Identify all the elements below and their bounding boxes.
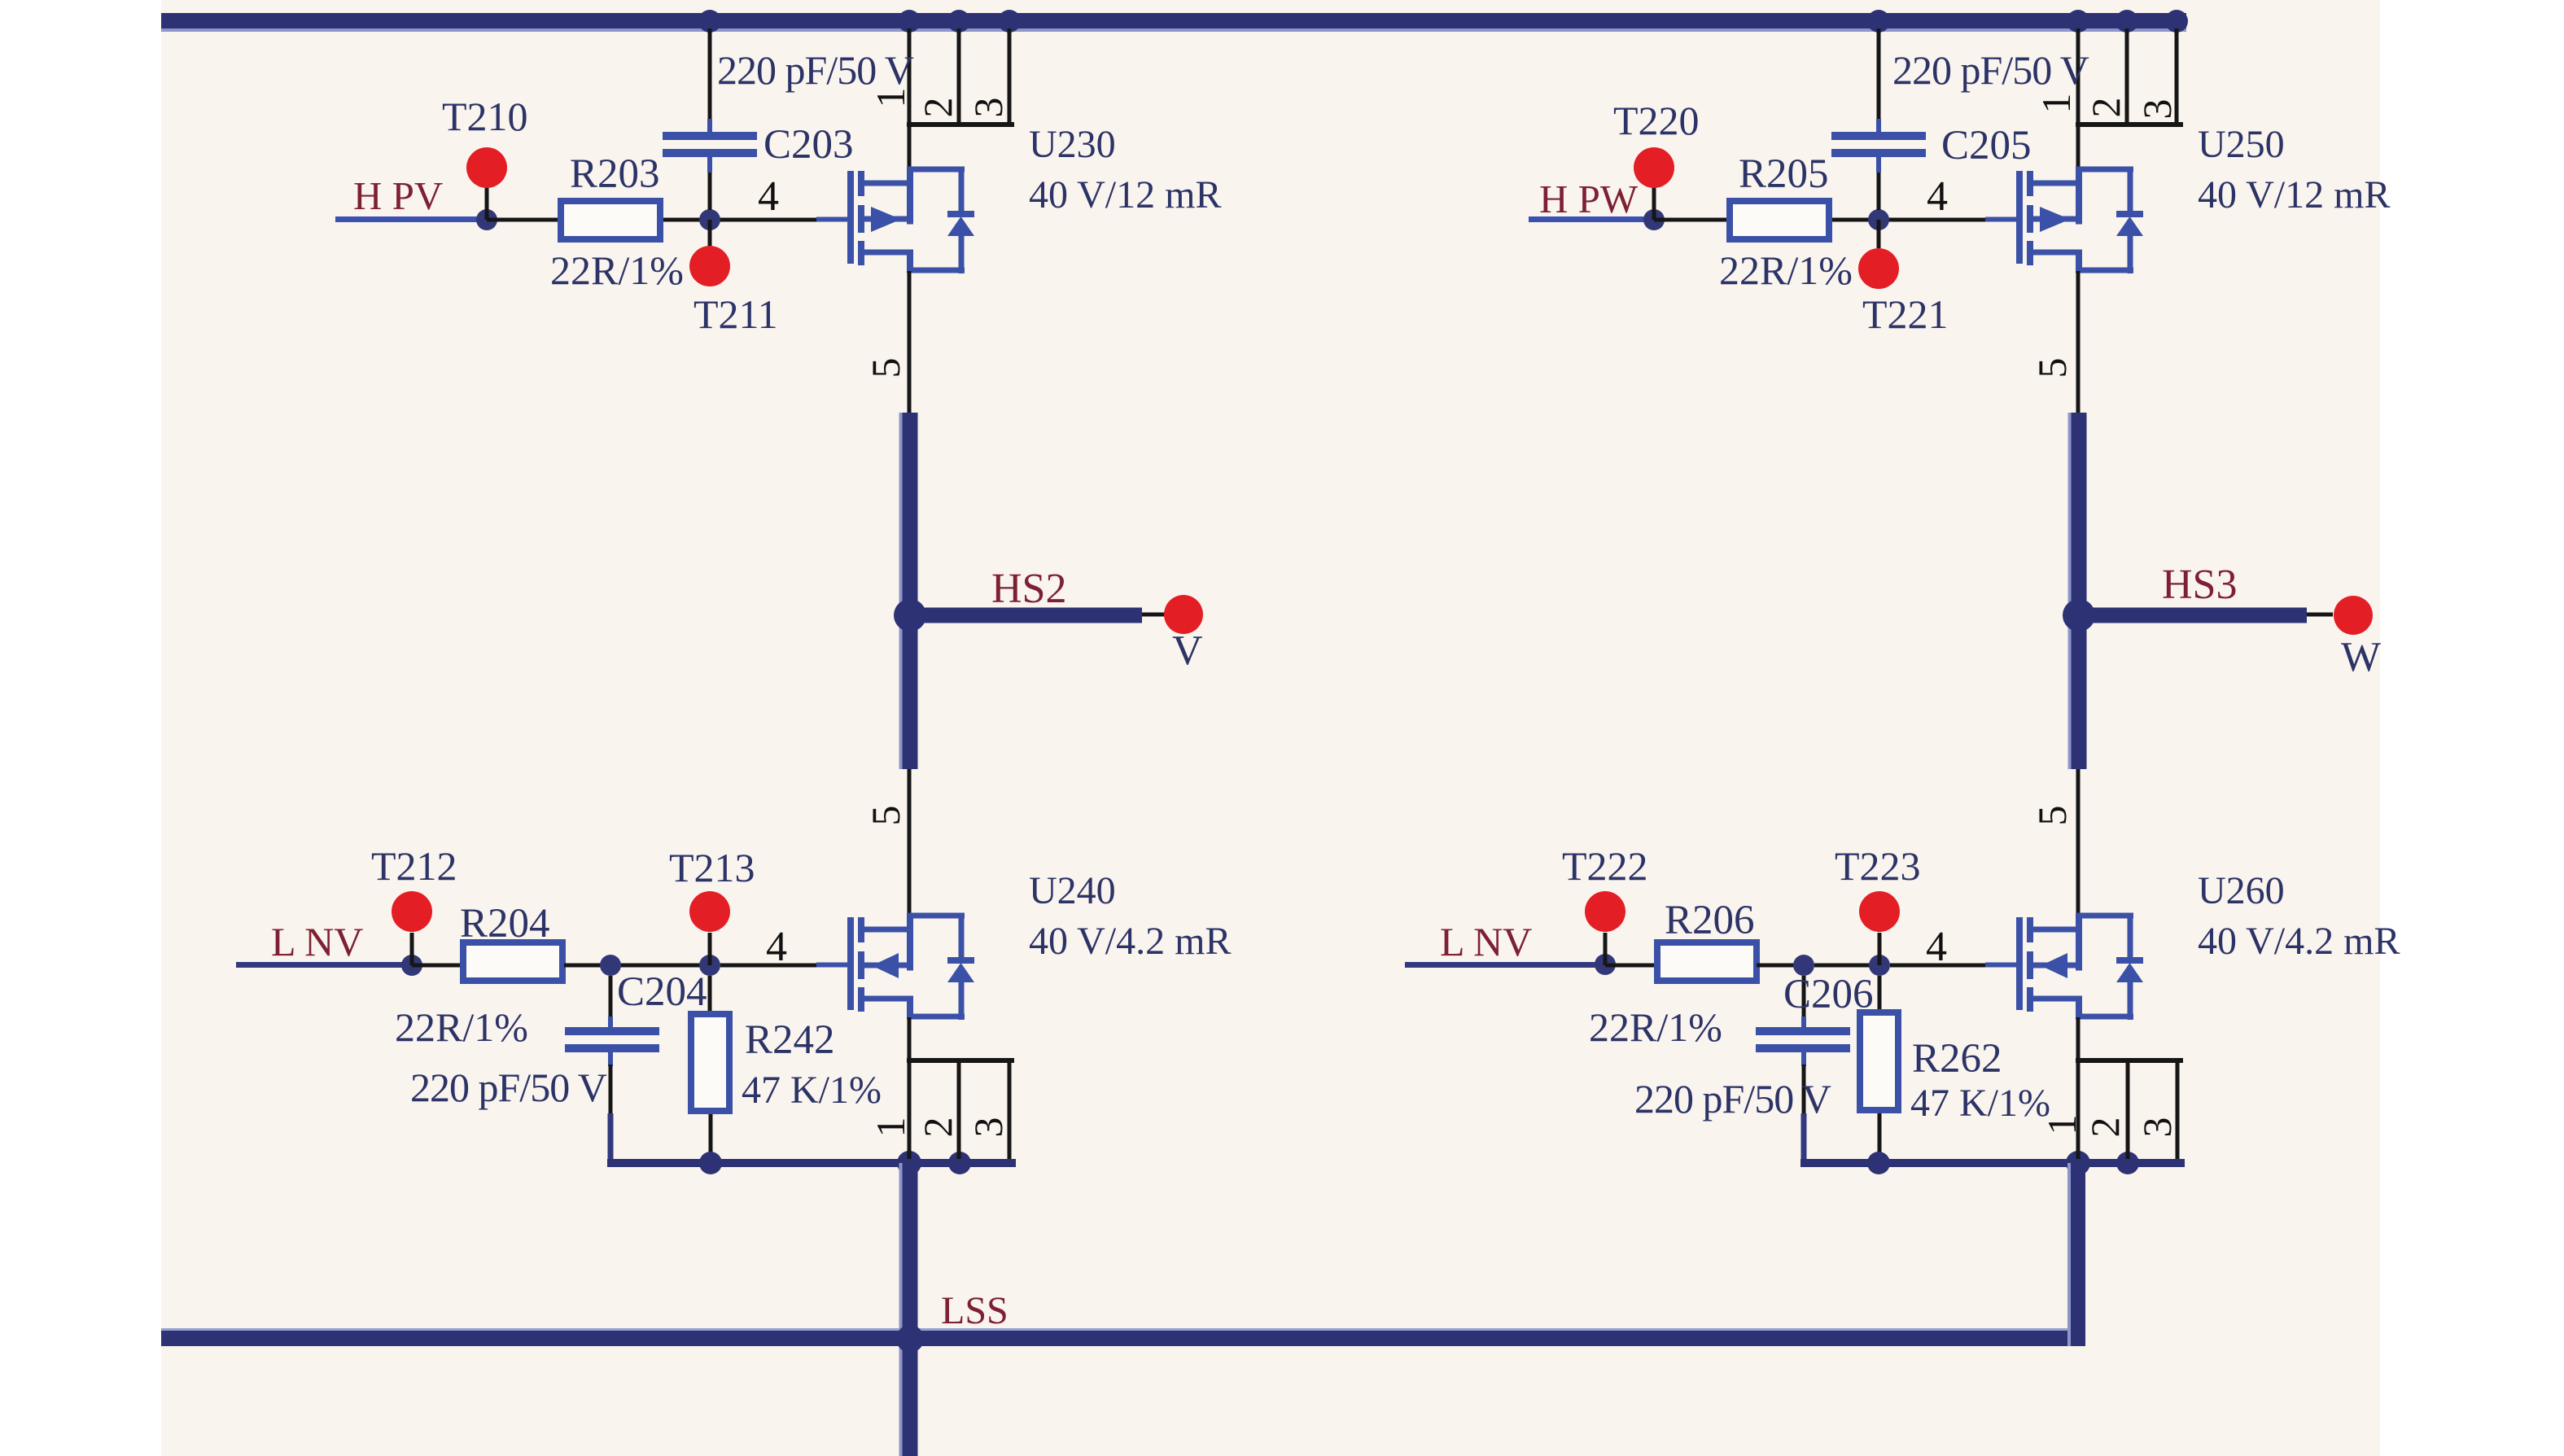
svg-text:2: 2: [2082, 1117, 2128, 1138]
wire U250 pin3: [2175, 28, 2179, 125]
wire HS2 stub (thick): [910, 608, 1142, 623]
node LSS crossing: [896, 1325, 924, 1353]
svg-text:T212: T212: [371, 843, 457, 889]
node L NV junction: [401, 955, 422, 976]
svg-text:H PV: H PV: [353, 173, 443, 218]
wire bottom pin3: [1008, 1063, 1012, 1159]
capacitor C204: [565, 1027, 659, 1035]
svg-text:T222: T222: [1562, 843, 1648, 889]
node junction on rail at U230 pin3: [998, 10, 1021, 33]
svg-text:1: 1: [2039, 1115, 2085, 1135]
wire C203 top (rail to cap): [708, 28, 712, 122]
resistor R206: [1657, 942, 1757, 981]
HS3 thick vertical bar: [2068, 413, 2072, 769]
svg-text:40 V/4.2 mR: 40 V/4.2 mR: [1029, 920, 1231, 963]
svg-text:U230: U230: [1029, 123, 1116, 166]
svg-text:220 pF/50 V: 220 pF/50 V: [410, 1065, 607, 1110]
HS2 thick vertical bar: [899, 413, 903, 769]
test point T213: [708, 933, 712, 965]
wire U250 drain pin1: [2076, 28, 2081, 169]
wire C206 bottom to bar corner: [1801, 1052, 1806, 1066]
top connector box bottom edge: [907, 122, 1014, 127]
wire R205 to U250 gate: [1832, 218, 1987, 222]
test point W: [2334, 596, 2373, 635]
resistor R262: [1860, 1012, 1898, 1110]
bottom connector box top edge: [907, 1058, 1014, 1063]
svg-text:3: 3: [2134, 99, 2180, 120]
test point T210: [485, 187, 489, 220]
capacitor C203: [663, 132, 757, 140]
test point T220: [1652, 187, 1656, 220]
svg-text:U260: U260: [2198, 869, 2285, 912]
wire C204 node down to cap: [609, 976, 613, 1022]
wire R262 to bottom bar: [1878, 1113, 1882, 1159]
svg-text:H PW: H PW: [1539, 177, 1639, 221]
svg-text:1: 1: [868, 1117, 913, 1138]
svg-text:2: 2: [915, 1117, 960, 1138]
resistor R242: [691, 1014, 729, 1111]
svg-text:220 pF/50 V: 220 pF/50 V: [717, 47, 914, 93]
svg-text:22R/1%: 22R/1%: [395, 1004, 528, 1050]
node junction on rail above C203: [698, 10, 721, 33]
wire R206 to C206 node: [1757, 964, 1804, 968]
wire U230 source down to HS2 bar: [908, 271, 912, 416]
svg-text:R205: R205: [1739, 151, 1829, 197]
svg-text:22R/1%: 22R/1%: [550, 247, 684, 293]
top power rail: [161, 13, 2186, 28]
node C206 junction: [1793, 955, 1814, 976]
test point V: [1164, 595, 1203, 634]
svg-text:40 V/12 mR: 40 V/12 mR: [1029, 173, 1221, 216]
wire H PW lead-in (blue): [1529, 216, 1654, 222]
wire L NV lead-in: [236, 962, 412, 968]
wire C204 node to T213 node: [621, 964, 711, 968]
wire R242 to bottom bar: [709, 1114, 713, 1159]
svg-text:U250: U250: [2198, 123, 2285, 166]
svg-text:V: V: [1172, 627, 1203, 674]
test point T222: [1604, 933, 1608, 965]
svg-text:22R/1%: 22R/1%: [1719, 247, 1853, 293]
wire U230 pin3: [1008, 28, 1012, 125]
node H PV junction: [476, 209, 497, 230]
svg-text:5: 5: [2029, 358, 2075, 378]
mosfet U250: [2016, 167, 2143, 274]
svg-text:LSS: LSS: [941, 1289, 1009, 1332]
wire junction to R205: [1654, 218, 1730, 222]
svg-text:R242: R242: [745, 1017, 835, 1063]
wire junction to R204: [412, 964, 463, 968]
node gate junction below C205: [1868, 209, 1889, 230]
test point T221: [1877, 220, 1881, 248]
svg-text:R203: R203: [570, 151, 660, 197]
wire right bottom pin2: [2126, 1063, 2130, 1159]
svg-text:HS2: HS2: [991, 566, 1066, 612]
svg-text:4: 4: [766, 924, 787, 970]
svg-text:4: 4: [1927, 173, 1948, 220]
svg-text:4: 4: [1926, 924, 1947, 970]
node junction on rail at U230 pin1: [898, 10, 921, 33]
node R242 bottom junction: [699, 1152, 722, 1174]
svg-text:T223: T223: [1835, 843, 1921, 889]
svg-text:40 V/12 mR: 40 V/12 mR: [2198, 173, 2390, 216]
wire R204 to C204 node: [564, 964, 662, 968]
bottom connector box top edge (right): [2076, 1058, 2183, 1063]
svg-text:T211: T211: [694, 291, 778, 337]
svg-text:5: 5: [2029, 806, 2075, 826]
test point T212: [410, 933, 414, 965]
svg-text:R262: R262: [1912, 1036, 2002, 1082]
svg-text:22R/1%: 22R/1%: [1589, 1004, 1722, 1050]
wire HS3 stub (thick): [2079, 608, 2307, 623]
mosfet U230: [847, 167, 974, 274]
wire C205 bottom to gate junction: [1876, 157, 1881, 173]
node right pin2 bottom junction: [2116, 1152, 2139, 1174]
wire T213 node down to R242: [708, 976, 712, 1014]
svg-text:5: 5: [863, 806, 908, 826]
svg-text:R204: R204: [460, 901, 550, 947]
node HS3 junction: [2063, 599, 2095, 632]
wire U230 pin2: [957, 28, 961, 125]
wire HS3 bar to U260 drain: [2076, 769, 2081, 916]
svg-text:U240: U240: [1029, 869, 1116, 912]
wire bottom pin2: [957, 1063, 961, 1159]
node junction on rail at U250 pin2: [2116, 10, 2138, 33]
svg-text:C203: C203: [764, 122, 854, 168]
node pin2 bottom junction: [948, 1152, 971, 1174]
svg-text:T213: T213: [669, 845, 755, 890]
node pin1 bottom junction: [897, 1151, 921, 1175]
capacitor C205: [1831, 132, 1926, 140]
wire C204 bottom to bar corner: [608, 1052, 613, 1066]
node HS2 junction: [894, 599, 926, 632]
wire HS2 bar to U240 drain: [908, 769, 912, 916]
wire L NV right lead-in: [1405, 962, 1605, 968]
wire R203 to U230 gate: [663, 218, 818, 222]
svg-text:47 K/1%: 47 K/1%: [1910, 1082, 2050, 1125]
svg-text:T210: T210: [442, 94, 528, 139]
svg-text:47 K/1%: 47 K/1%: [742, 1069, 882, 1112]
svg-text:40 V/4.2 mR: 40 V/4.2 mR: [2198, 920, 2400, 963]
node H PW junction: [1643, 209, 1665, 230]
wire U250 pin2: [2125, 28, 2129, 125]
svg-text:W: W: [2341, 634, 2381, 680]
svg-text:C206: C206: [1783, 972, 1874, 1017]
wire H PV lead-in (blue): [335, 216, 487, 222]
svg-text:3: 3: [965, 98, 1011, 118]
svg-text:2: 2: [2083, 98, 2129, 118]
node C204 junction: [600, 955, 621, 976]
wire junction to R203: [487, 218, 558, 222]
resistor R203: [561, 201, 660, 239]
svg-text:R206: R206: [1665, 898, 1755, 943]
svg-text:C205: C205: [1941, 123, 2032, 168]
node T213 junction: [699, 955, 720, 976]
svg-text:3: 3: [965, 1117, 1011, 1138]
svg-text:220 pF/50 V: 220 pF/50 V: [1634, 1076, 1831, 1122]
svg-text:2: 2: [915, 98, 960, 118]
wire C205 top (rail to cap): [1877, 28, 1881, 122]
wire T223 node down to R262: [1878, 976, 1882, 1009]
svg-text:L NV: L NV: [1440, 919, 1532, 964]
node gate junction below C203: [699, 209, 720, 230]
node junction on rail at U250 pin3: [2165, 10, 2188, 33]
node right pin1 bottom junction: [2066, 1151, 2090, 1175]
svg-text:HS3: HS3: [2162, 562, 2237, 608]
wire right bottom pin3: [2176, 1063, 2180, 1159]
wire C206 node down to cap: [1802, 976, 1806, 1022]
svg-text:220 pF/50 V: 220 pF/50 V: [1892, 47, 2089, 93]
node junction on rail at U250 pin1: [2067, 10, 2089, 33]
svg-text:5: 5: [863, 358, 908, 378]
mosfet U240: [847, 913, 974, 1021]
wire C203 bottom to gate junction: [707, 157, 712, 173]
node R262 bottom junction: [1867, 1152, 1890, 1174]
node junction on rail above C205: [1867, 10, 1890, 33]
wire HS3 to W test point: [2307, 613, 2333, 617]
svg-text:4: 4: [758, 173, 779, 220]
svg-text:L NV: L NV: [271, 919, 363, 964]
wire U260 source to bottom connector: [2076, 1017, 2081, 1159]
wire U240 source to bottom connector: [908, 1017, 912, 1159]
wire U250 source down to HS3 bar: [2076, 271, 2081, 416]
svg-text:T221: T221: [1862, 291, 1949, 337]
svg-text:3: 3: [2134, 1117, 2180, 1138]
bottom bar right half-bridge: [1800, 1159, 2185, 1167]
wire T213 node to U240 gate: [720, 964, 818, 968]
svg-text:C204: C204: [617, 969, 707, 1015]
resistor R205: [1730, 201, 1829, 239]
test point T223: [1878, 933, 1882, 965]
LSS riser right end: [2067, 1163, 2071, 1346]
node T223 junction: [1869, 955, 1890, 976]
svg-text:1: 1: [868, 88, 913, 108]
node L NV right junction: [1595, 954, 1616, 975]
wire U230 drain pin1: [908, 28, 912, 169]
svg-text:T220: T220: [1613, 98, 1700, 143]
wire C206 node to T223 node: [1814, 964, 1879, 968]
node junction on rail at U230 pin2: [947, 10, 970, 33]
top connector box bottom edge (right): [2076, 122, 2183, 127]
test point T211: [708, 220, 712, 248]
wire junction to R206: [1605, 964, 1654, 968]
LSS thick drop below pin1: [899, 1163, 903, 1456]
wire T223 node to U260 gate: [1890, 964, 1988, 968]
resistor R204: [463, 942, 562, 981]
svg-text:1: 1: [2033, 94, 2079, 114]
capacitor C206: [1756, 1027, 1850, 1035]
bottom bar left half-bridge: [607, 1159, 1016, 1167]
mosfet U260: [2016, 913, 2143, 1021]
LSS bottom rail: [161, 1331, 2085, 1346]
wire HS2 to V test point: [1142, 613, 1166, 617]
